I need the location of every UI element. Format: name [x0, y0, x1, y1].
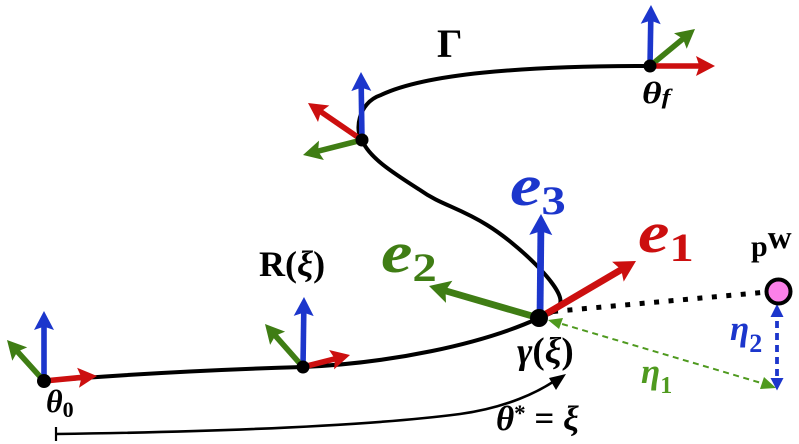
svg-text:e2: e2 [381, 220, 437, 290]
svg-text:η1: η1 [641, 352, 672, 399]
label e2 [381, 220, 437, 290]
frame theta0: green arrow [7, 340, 44, 381]
frame R(xi): blue arrow [294, 297, 314, 367]
curve Gamma main S-curve [44, 66, 650, 381]
frame theta0: origin dot [37, 374, 51, 388]
label theta* = xi [496, 399, 579, 438]
label gamma(xi) [517, 331, 574, 372]
frame theta_f: green arrow [650, 29, 695, 66]
svg-text:pw: pw [751, 220, 792, 263]
frame mid-S: origin dot [356, 134, 369, 147]
frame gamma(xi): origin dot [530, 309, 548, 327]
frame theta0: blue arrow [34, 311, 54, 381]
frame theta0: red arrow [44, 368, 97, 388]
svg-text:θ* = ξ: θ* = ξ [496, 399, 579, 438]
svg-text:e3: e3 [510, 153, 566, 223]
frame mid-S: blue arrow [351, 72, 371, 140]
frame theta_f: origin dot [644, 60, 657, 73]
label eta2 [730, 309, 762, 358]
frame mid-S: green arrow [303, 140, 362, 160]
frame R(xi): red arrow [303, 350, 350, 369]
point p^w pink circle [767, 280, 791, 304]
label theta_0 [46, 383, 74, 422]
frame R(xi): green arrow [265, 324, 303, 367]
dashed green eta1 line with both arrowheads [548, 318, 776, 389]
dashed blue eta2 double arrow [771, 304, 784, 391]
frame mid-S: red arrow [308, 103, 362, 140]
label e1 [638, 200, 694, 270]
frame theta_f: red arrow [650, 56, 715, 76]
frame gamma(xi): green arrow e2 [429, 281, 539, 318]
theta-star axis curve (thin, bottom) [56, 374, 566, 441]
frame theta_f: blue arrow [641, 5, 661, 66]
label eta1 [641, 352, 672, 399]
label theta_f [642, 76, 674, 110]
svg-text:η2: η2 [730, 309, 762, 358]
svg-text:R(ξ): R(ξ) [259, 244, 325, 284]
frame gamma(xi): blue arrow e3 [529, 214, 552, 318]
dotted line gamma(xi) to p^w [553, 293, 762, 312]
label R(xi) [259, 244, 325, 284]
label p^w [751, 220, 792, 263]
label e3 [510, 153, 566, 223]
svg-text:e1: e1 [638, 200, 694, 270]
svg-text:Γ: Γ [437, 21, 462, 66]
svg-text:θ0: θ0 [46, 383, 74, 422]
frame gamma(xi): red arrow e1 [539, 261, 636, 318]
frame R(xi): origin dot [297, 361, 310, 374]
svg-text:θf: θf [642, 76, 674, 110]
label Gamma [437, 21, 462, 66]
svg-text:γ(ξ): γ(ξ) [517, 331, 574, 372]
